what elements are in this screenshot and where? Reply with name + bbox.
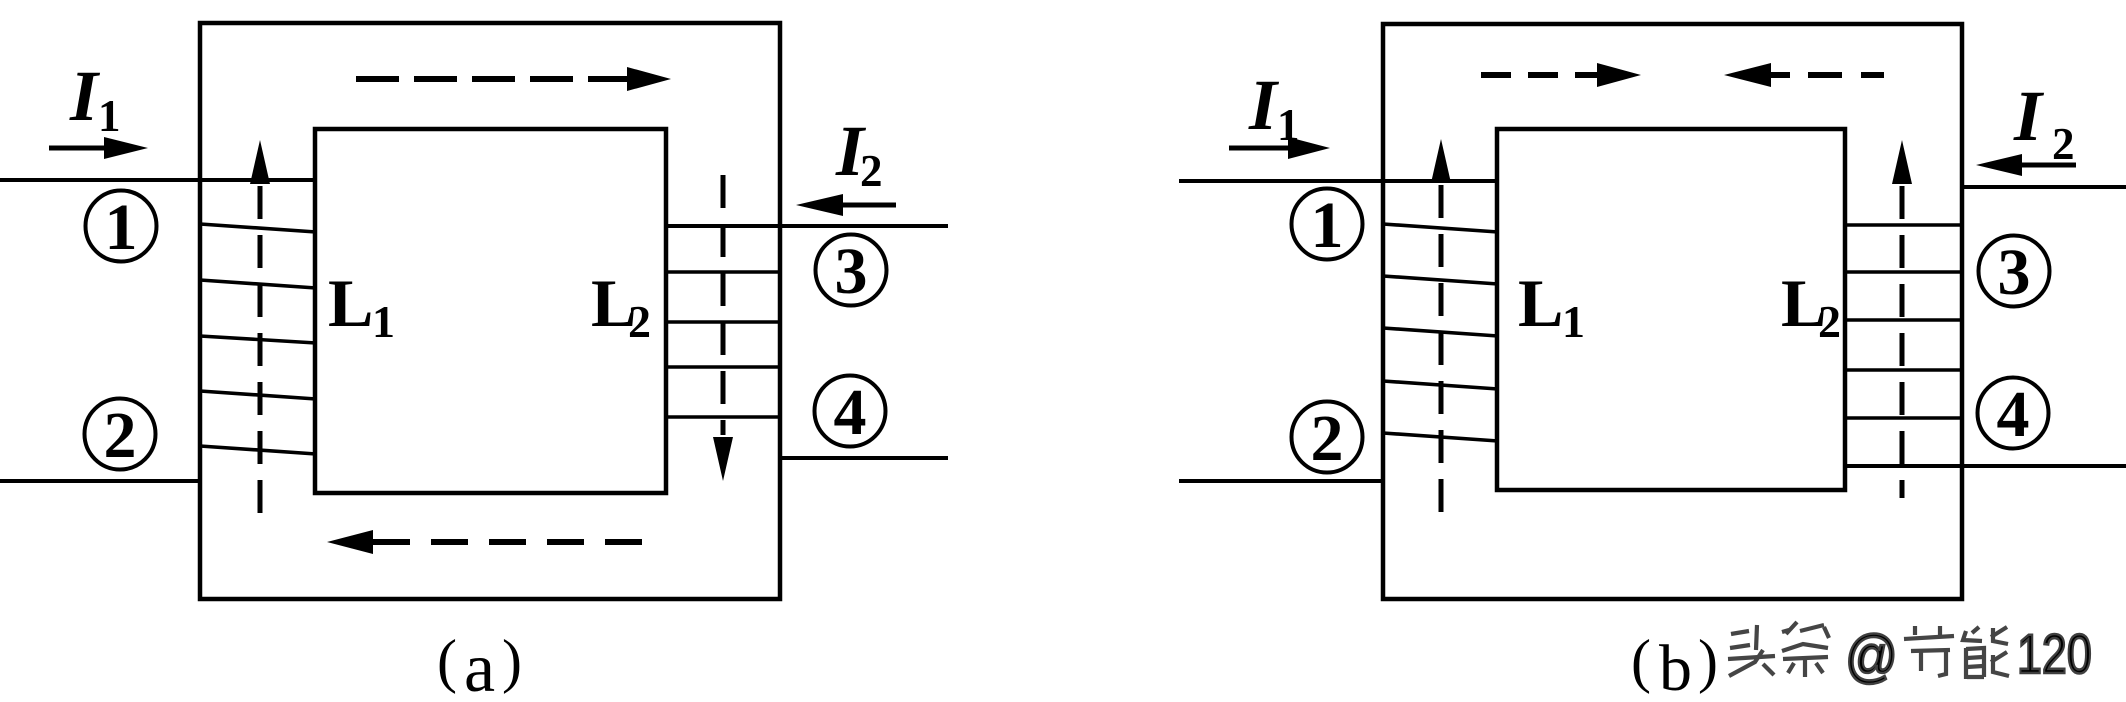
winding L1 turns (b) (1383, 224, 1498, 441)
svg-text:3: 3 (1998, 236, 2031, 309)
svg-text:2: 2 (1311, 402, 1344, 475)
wire terminal 1 (b) (1179, 179, 1497, 183)
core outer rectangle (b) (1383, 24, 1962, 599)
current arrow I1 (a) (49, 146, 106, 151)
terminal 2 circle (b) (1292, 402, 1363, 473)
watermark char 节 (1904, 626, 1954, 676)
svg-text:3: 3 (835, 235, 868, 308)
svg-text:1: 1 (98, 91, 121, 141)
svg-text:2: 2 (860, 146, 883, 196)
svg-text:b: b (1659, 632, 1692, 702)
svg-text:4: 4 (1997, 378, 2030, 451)
flux arrow top right (b) pointing left (1724, 63, 1771, 87)
svg-text:120: 120 (2017, 622, 2092, 685)
current arrow I1 (b) (1229, 146, 1290, 151)
terminal 4 circle (a) (815, 376, 886, 447)
watermark 头条@节能120 (1728, 622, 1829, 677)
terminal 3 circle (a) (816, 235, 887, 306)
svg-text:2: 2 (2052, 119, 2075, 169)
winding L1 turns (a) (200, 224, 316, 454)
core outer rectangle (a) (200, 23, 780, 599)
wire terminal 3 (b) (1962, 185, 2126, 189)
current arrow I2 (b) (2022, 163, 2076, 168)
svg-text:I: I (1248, 65, 1280, 145)
core inner window (b) (1497, 129, 1845, 490)
svg-text:2: 2 (628, 296, 651, 347)
svg-text:1: 1 (372, 296, 395, 347)
svg-text:I: I (69, 56, 101, 136)
flux arrow right leg (a) pointing down (721, 175, 726, 435)
svg-text:(: ( (1631, 628, 1651, 694)
svg-text:L: L (328, 265, 373, 341)
svg-text:2: 2 (104, 399, 137, 472)
wire terminal 4 (b) (1845, 464, 2126, 468)
flux arrow top (a) pointing right (356, 76, 631, 82)
svg-text:I: I (2013, 76, 2045, 156)
flux arrow right leg (b) pointing up (1892, 140, 1912, 184)
svg-text:L: L (1518, 265, 1563, 341)
svg-text:(: ( (437, 628, 457, 694)
watermark char 头 (1728, 625, 1775, 676)
svg-text:a: a (464, 630, 495, 702)
flux arrow bottom (a) pointing left (327, 530, 373, 554)
flux arrow top left (b) pointing right (1481, 72, 1598, 78)
svg-text:@: @ (1845, 623, 1898, 688)
svg-text:4: 4 (834, 376, 867, 449)
core inner window (a) (315, 129, 666, 493)
svg-text:1: 1 (105, 191, 138, 264)
svg-text:1: 1 (1311, 189, 1344, 262)
terminal 3 circle (b) (1979, 236, 2050, 307)
wire terminal 4 (a) (780, 456, 948, 460)
wire terminal 3 (a) (664, 224, 948, 228)
terminal 4 circle (b) (1978, 378, 2049, 449)
terminal 1 circle (a) (86, 191, 157, 262)
current arrow I2 (a) (843, 203, 896, 208)
winding L2 turns (a) (664, 272, 782, 417)
flux arrow left leg (b) pointing up (1431, 139, 1451, 183)
svg-text:2: 2 (1818, 296, 1841, 347)
watermark char 条 (1782, 622, 1829, 677)
svg-text:): ) (1698, 628, 1718, 694)
terminal 2 circle (a) (85, 399, 156, 470)
svg-text:): ) (502, 628, 522, 694)
wire terminal 1 (a) (0, 178, 315, 182)
terminal 1 circle (b) (1292, 189, 1363, 260)
winding L2 turns (b) (1845, 225, 1962, 418)
svg-text:1: 1 (1277, 100, 1300, 150)
wire terminal 2 (a) (0, 479, 202, 483)
wire terminal 2 (b) (1179, 479, 1385, 483)
svg-text:1: 1 (1562, 296, 1585, 347)
flux arrow left leg (a) pointing up (250, 140, 270, 184)
watermark char 能 (1963, 627, 2009, 679)
